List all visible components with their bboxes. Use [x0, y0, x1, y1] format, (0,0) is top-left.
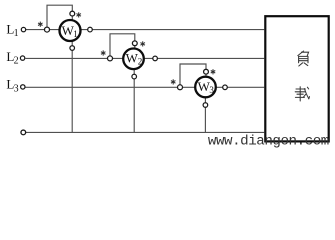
svg-text:www.diangon.com: www.diangon.com — [208, 133, 329, 149]
terminal W2 voltage bottom — [132, 74, 137, 79]
svg-text:2: 2 — [14, 56, 19, 67]
polarity mark W3 current — [171, 79, 176, 84]
wire W3 voltage dropper — [204, 98, 206, 132]
wattmeter W1 — [60, 20, 81, 41]
terminal W2 current out — [153, 56, 158, 61]
polarity mark W2 current — [101, 50, 106, 55]
polarity mark W3 voltage — [211, 69, 216, 74]
svg-text:W: W — [126, 50, 139, 65]
label L2 — [6, 49, 18, 67]
polarity mark W1 current — [38, 22, 43, 27]
polarity mark W1 voltage — [76, 12, 81, 17]
svg-text:1: 1 — [14, 28, 19, 39]
terminal W3 voltage top — [204, 69, 209, 74]
terminal W1 voltage bottom — [70, 46, 75, 51]
label L3 — [6, 77, 18, 95]
node W1 current in — [45, 27, 50, 32]
svg-text:3: 3 — [14, 83, 19, 94]
terminal W1 voltage top — [70, 11, 75, 16]
terminal W3 current out — [223, 85, 228, 90]
svg-text:3: 3 — [209, 85, 214, 95]
node W2 current in — [108, 56, 113, 61]
wire L3 line — [26, 86, 265, 88]
svg-text:2: 2 — [138, 57, 143, 67]
terminal W2 voltage top — [132, 41, 137, 46]
terminal L1 source — [21, 27, 25, 31]
polarity mark W2 voltage — [140, 41, 145, 46]
wire L2 line — [26, 57, 265, 59]
load box — [265, 16, 328, 141]
terminal W1 current out — [88, 27, 93, 32]
label load char ZAI (载) — [295, 87, 309, 101]
wire neutral line — [26, 131, 264, 133]
wire W1 voltage loop — [47, 5, 72, 29]
terminal L3 source — [21, 85, 25, 89]
terminal neutral source — [21, 130, 26, 135]
label L1 — [6, 21, 18, 39]
label load char FU (负) — [298, 51, 309, 66]
terminal W3 voltage bottom — [203, 103, 208, 108]
wire L1 line — [26, 29, 265, 31]
wattmeter W3 — [195, 77, 216, 98]
node W3 current in — [178, 85, 183, 90]
wire W3 voltage loop — [180, 64, 206, 87]
terminal L2 source — [20, 56, 24, 60]
wire W2 voltage loop — [110, 34, 135, 59]
wire W1 voltage dropper — [71, 42, 73, 133]
svg-text:1: 1 — [73, 29, 78, 39]
wire W2 voltage dropper — [133, 70, 135, 132]
wattmeter W2 — [123, 49, 144, 70]
